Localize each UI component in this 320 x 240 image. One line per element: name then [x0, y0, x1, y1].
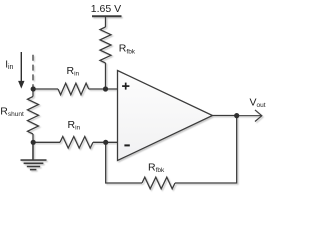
- wire Rin lower to op-amp − input: [93, 141, 118, 143]
- node C (lower left junction): [31, 140, 36, 145]
- resistor Rfbk (bottom, horizontal): [142, 177, 175, 189]
- node E (output junction): [234, 113, 239, 118]
- wire lower node to Rin lower: [33, 141, 60, 143]
- wire Rin upper to op-amp + input: [89, 88, 118, 90]
- resistor Rshunt (vertical): [28, 97, 39, 135]
- op-amp U1: [118, 71, 213, 161]
- node D (− input / feedback junction): [103, 140, 108, 145]
- resistor Rfbk (top, vertical): [100, 27, 111, 63]
- current arrow Iin: [18, 52, 24, 89]
- op-amp minus input marking: [124, 144, 129, 146]
- wire stub node to Rshunt: [32, 89, 34, 97]
- op-amp plus input marking: [122, 83, 129, 90]
- wire rail to Rfbk top: [105, 17, 107, 27]
- node A (+ input left junction): [31, 86, 36, 91]
- wire node to Rin upper: [33, 88, 58, 90]
- input wire (dashed current feed): [32, 55, 34, 88]
- feedback wire (− node down and right): [106, 142, 142, 183]
- node B (Rfbk top / + input junction): [103, 86, 108, 91]
- resistor Rin (lower): [60, 137, 93, 149]
- output wire: [213, 115, 237, 117]
- output arrow Vout: [237, 110, 262, 122]
- feedback wire right and up to output node: [175, 116, 237, 184]
- svg-text:1.65 V: 1.65 V: [91, 3, 121, 15]
- supply rail bar (1.65 V): [92, 15, 122, 17]
- wire Rshunt to lower node: [32, 134, 34, 142]
- ground: [21, 142, 47, 169]
- resistor Rin (upper): [58, 83, 89, 95]
- wire Rfbk bottom to + input node: [105, 63, 107, 89]
